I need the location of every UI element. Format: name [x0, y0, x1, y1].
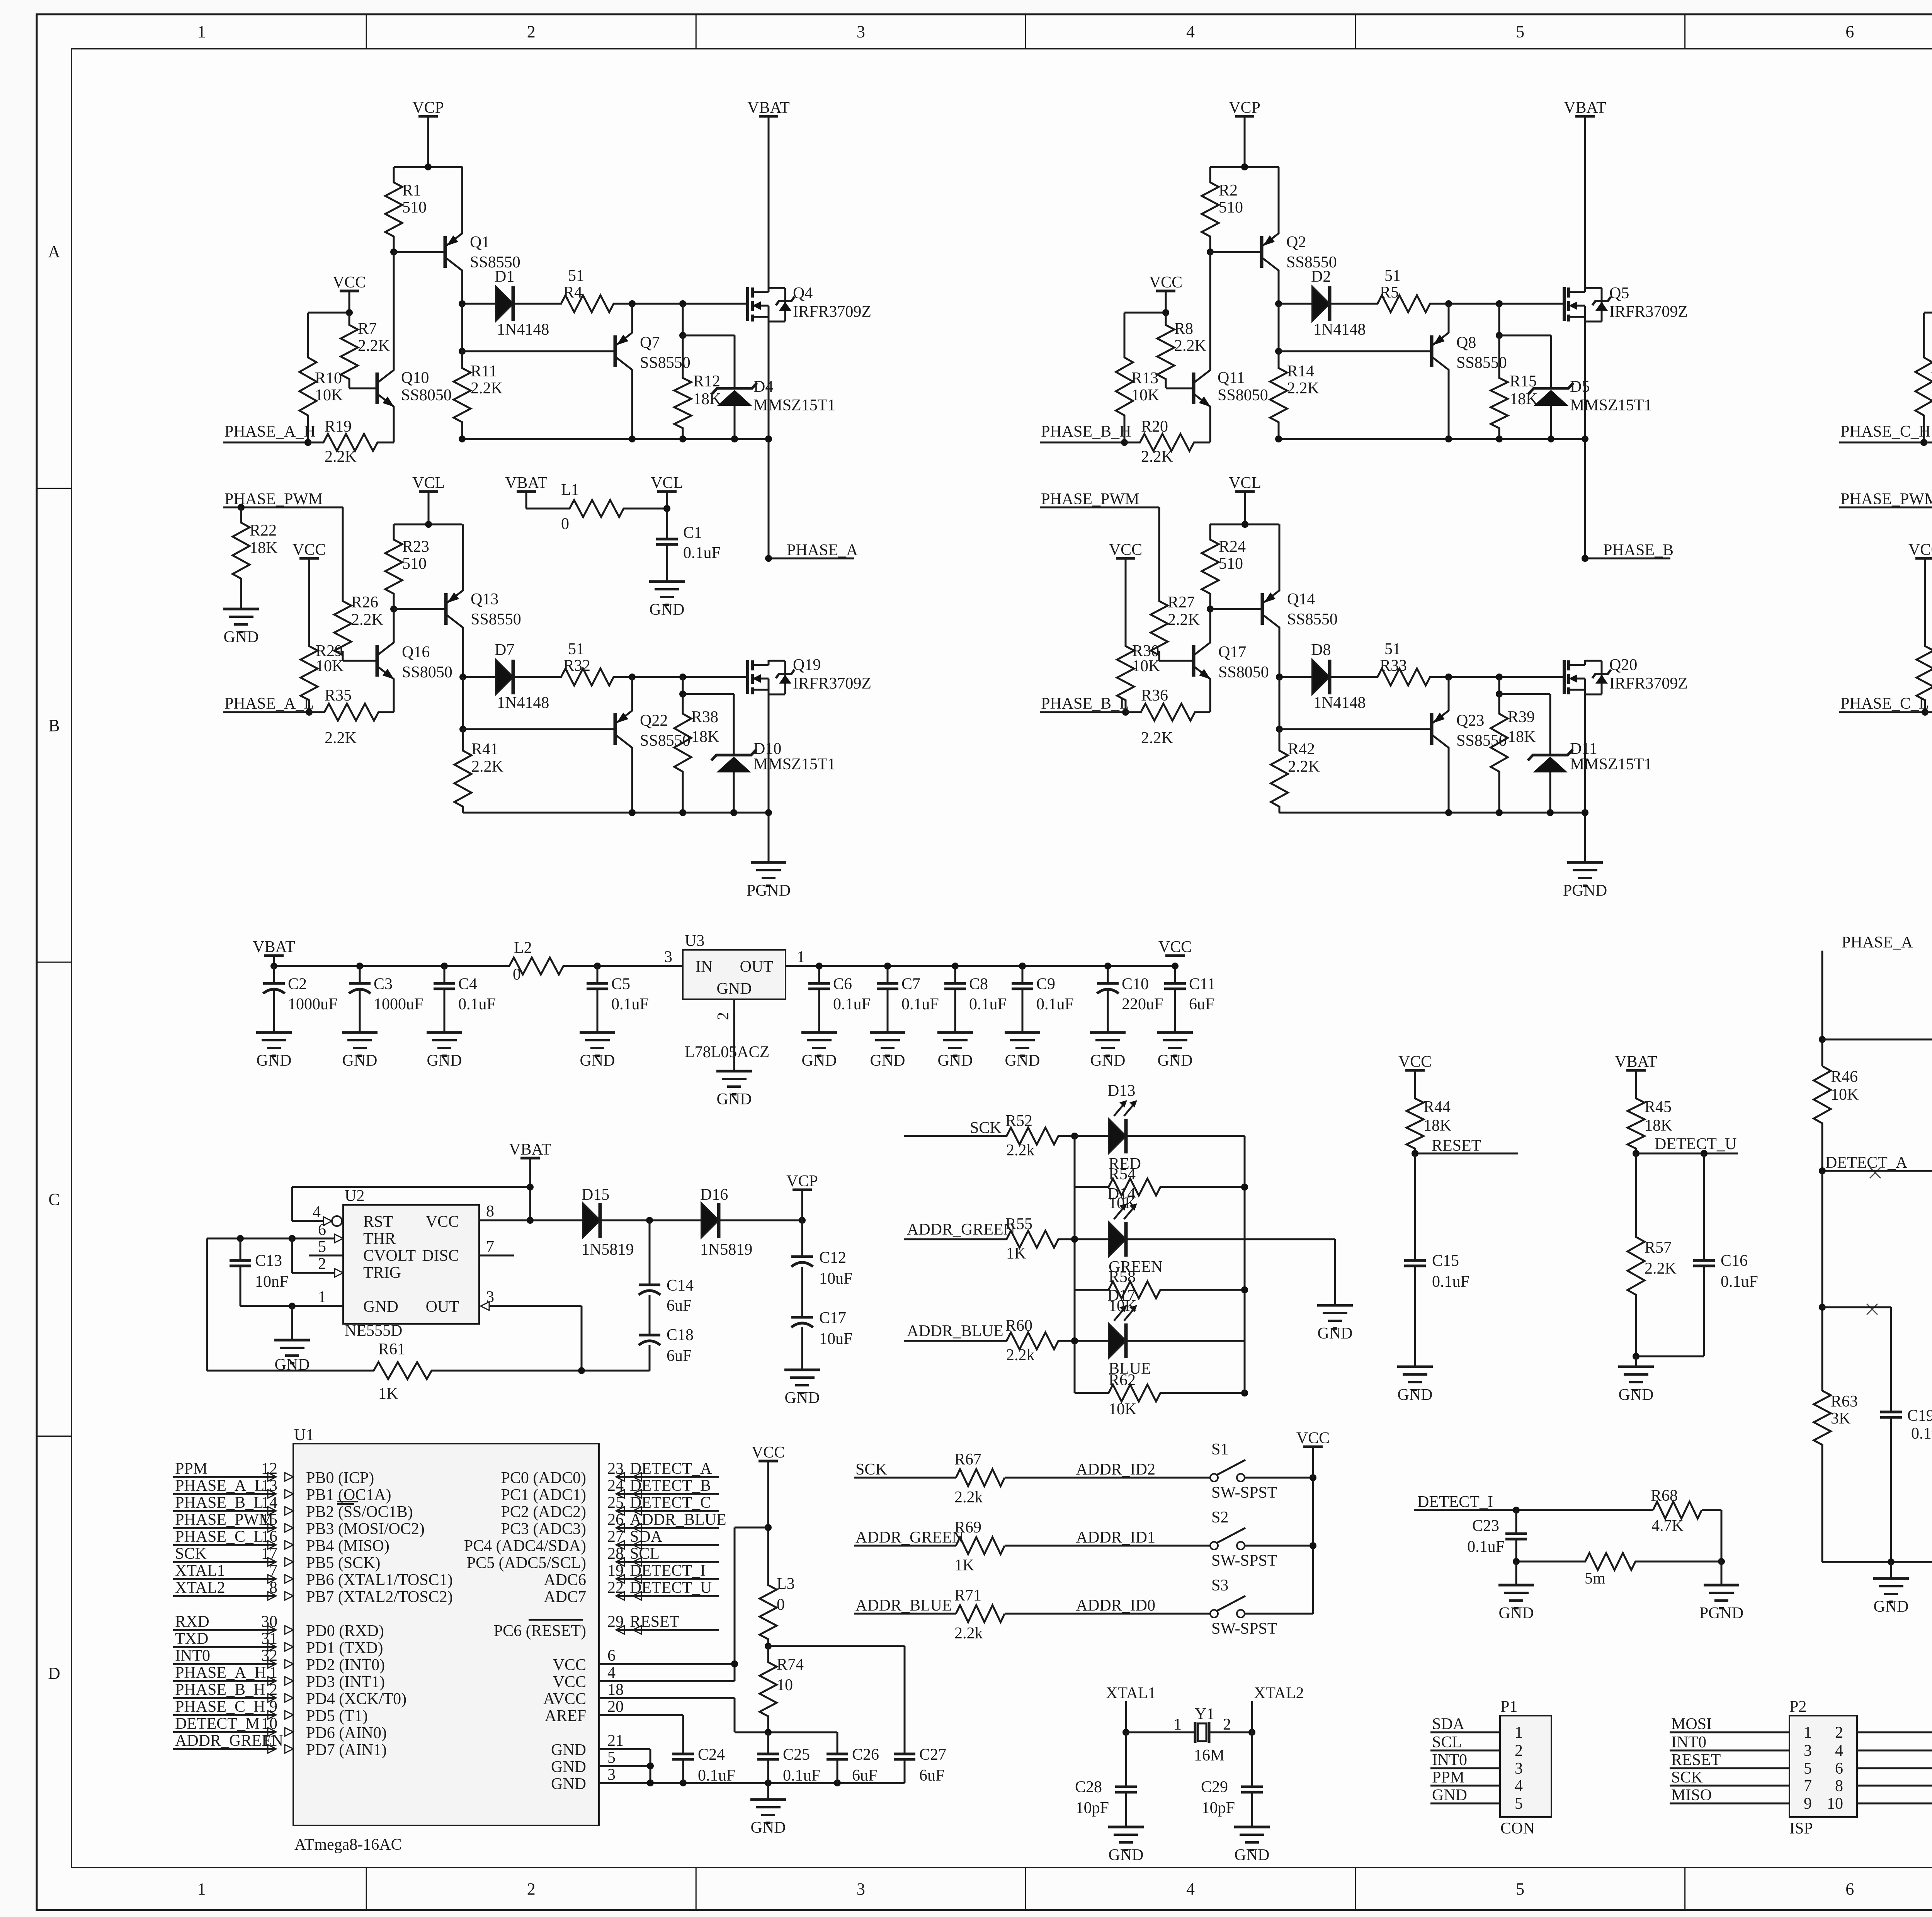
svg-text:PD7 (AIN1): PD7 (AIN1) [306, 1741, 387, 1759]
svg-text:18K: 18K [1510, 390, 1537, 408]
transistor Q14 [1261, 593, 1264, 625]
capacitor C17 [801, 1267, 803, 1317]
svg-text:1N4148: 1N4148 [497, 321, 549, 338]
svg-text:D2: D2 [1311, 268, 1331, 286]
svg-text:6uF: 6uF [667, 1297, 692, 1315]
svg-text:THR: THR [363, 1230, 396, 1248]
svg-text:C29: C29 [1201, 1778, 1228, 1796]
svg-text:PC3 (ADC3): PC3 (ADC3) [501, 1520, 586, 1538]
wire main supply rail [274, 965, 475, 967]
svg-text:2: 2 [1515, 1742, 1523, 1760]
svg-text:VCC: VCC [553, 1656, 586, 1674]
power VCL (phase B) [1235, 490, 1255, 493]
svg-text:2.2K: 2.2K [1174, 337, 1206, 355]
svg-text:RESET: RESET [630, 1613, 679, 1631]
svg-text:SCL: SCL [630, 1545, 660, 1563]
power VCC (phase B low input) [1116, 557, 1135, 560]
resistor R15 [1498, 304, 1500, 335]
power VBAT (supply input) [264, 954, 284, 957]
svg-text:10K: 10K [1109, 1297, 1136, 1315]
svg-text:10K: 10K [1109, 1194, 1136, 1212]
overline PB2 SS [337, 1503, 354, 1505]
svg-text:PB7 (XTAL2/TOSC2): PB7 (XTAL2/TOSC2) [306, 1588, 453, 1606]
svg-text:1: 1 [1515, 1724, 1523, 1742]
wire [1166, 388, 1194, 390]
svg-text:R57: R57 [1645, 1239, 1672, 1257]
svg-text:SS8550: SS8550 [1456, 732, 1507, 750]
resistor R21 [1924, 434, 1932, 451]
svg-text:ADC7: ADC7 [544, 1588, 586, 1606]
svg-text:PGND: PGND [1699, 1604, 1743, 1622]
svg-text:1: 1 [197, 22, 206, 41]
node [1582, 809, 1588, 816]
svg-text:R26: R26 [351, 594, 378, 611]
node [459, 674, 466, 680]
svg-text:XTAL1: XTAL1 [175, 1562, 225, 1580]
svg-text:PD1 (TXD): PD1 (TXD) [306, 1639, 383, 1657]
ground GND (C29) [1234, 1826, 1270, 1829]
led D17 [1075, 1340, 1109, 1342]
svg-text:D8: D8 [1311, 641, 1331, 659]
transistor Q2 [1260, 236, 1264, 268]
svg-text:GND: GND [785, 1389, 820, 1407]
svg-text:R27: R27 [1168, 594, 1195, 611]
svg-text:Q23: Q23 [1456, 712, 1484, 730]
node [1241, 163, 1248, 170]
ground GND (C7) [870, 1031, 905, 1034]
svg-text:ADDR_ID0: ADDR_ID0 [1076, 1597, 1155, 1614]
svg-text:10K: 10K [1132, 657, 1160, 675]
svg-text:VCL: VCL [412, 474, 445, 492]
svg-text:16M: 16M [1194, 1747, 1225, 1764]
svg-text:R19: R19 [325, 418, 352, 435]
svg-text:18: 18 [607, 1681, 624, 1699]
svg-text:VCC: VCC [1158, 938, 1192, 956]
svg-text:C23: C23 [1472, 1517, 1499, 1535]
wire [1040, 711, 1126, 713]
resistor R38 [682, 677, 684, 694]
svg-text:51: 51 [1384, 267, 1401, 285]
svg-text:ADDR_ID2: ADDR_ID2 [1076, 1461, 1155, 1478]
wire [649, 1345, 651, 1371]
svg-text:NE555D: NE555D [345, 1322, 402, 1340]
wire [1636, 1561, 1721, 1563]
svg-text:R71: R71 [954, 1587, 981, 1604]
svg-text:0.1uF: 0.1uF [969, 995, 1007, 1013]
svg-text:Q16: Q16 [402, 643, 430, 661]
svg-text:1K: 1K [378, 1385, 398, 1403]
svg-text:SDA: SDA [630, 1528, 663, 1546]
node [459, 348, 466, 355]
wire [1636, 1153, 1738, 1155]
svg-text:1: 1 [197, 1880, 206, 1898]
node [1633, 1353, 1639, 1360]
resistor R33 [1331, 668, 1449, 685]
svg-text:OUT: OUT [740, 958, 773, 976]
svg-text:3: 3 [1804, 1742, 1812, 1760]
svg-text:6: 6 [1835, 1760, 1843, 1778]
svg-text:2.2K: 2.2K [358, 337, 390, 355]
svg-text:D: D [48, 1664, 60, 1683]
svg-text:C26: C26 [852, 1746, 879, 1764]
svg-text:Q1: Q1 [470, 233, 490, 251]
svg-text:R74: R74 [777, 1656, 804, 1674]
svg-text:SS8550: SS8550 [471, 611, 521, 628]
wire [767, 1783, 769, 1800]
wire [632, 676, 748, 678]
pin 10 P2 [1857, 1803, 1932, 1805]
wire [904, 1135, 989, 1137]
wire [1822, 1306, 1891, 1308]
zener diode D10 [683, 693, 734, 695]
capacitor C23 [1515, 1510, 1517, 1534]
capacitor C28 [1125, 1732, 1127, 1787]
led D13 [1075, 1135, 1109, 1137]
resistor R13 [1116, 313, 1133, 442]
node [1276, 726, 1283, 733]
svg-text:MISO: MISO [1671, 1786, 1712, 1804]
svg-text:PC4 (ADC4/SDA): PC4 (ADC4/SDA) [464, 1537, 586, 1555]
diode D7 [463, 676, 496, 678]
svg-text:10uF: 10uF [819, 1330, 852, 1348]
svg-text:3K: 3K [1831, 1410, 1850, 1427]
svg-text:R44: R44 [1423, 1098, 1451, 1116]
wire col A lower [1821, 1171, 1823, 1391]
wire [801, 1190, 803, 1220]
wire [1584, 322, 1586, 558]
wire [768, 116, 770, 287]
svg-text:C9: C9 [1036, 975, 1055, 993]
svg-text:L1: L1 [561, 481, 579, 499]
svg-text:Q4: Q4 [793, 284, 813, 302]
svg-text:Q10: Q10 [401, 369, 429, 387]
svg-text:ADDR_BLUE: ADDR_BLUE [855, 1597, 952, 1614]
svg-text:MMSZ15T1: MMSZ15T1 [1570, 396, 1652, 414]
svg-text:L78L05ACZ: L78L05ACZ [685, 1043, 769, 1061]
wire [582, 1370, 650, 1372]
svg-text:3: 3 [664, 948, 672, 966]
resistor R23 [385, 524, 402, 609]
node [1122, 709, 1129, 716]
capacitor C6 [818, 966, 820, 983]
resistor R54 [1075, 1179, 1245, 1196]
svg-text:7: 7 [486, 1238, 494, 1256]
svg-text:GND: GND [1398, 1386, 1433, 1404]
wire [1279, 524, 1281, 591]
svg-text:Q8: Q8 [1456, 334, 1476, 352]
wire [1515, 1561, 1517, 1585]
svg-text:C7: C7 [901, 975, 920, 993]
wire [1251, 1701, 1253, 1732]
resistor R16 [1915, 313, 1932, 442]
svg-text:21: 21 [607, 1732, 624, 1750]
svg-text:GND: GND [751, 1819, 786, 1837]
svg-text:R8: R8 [1174, 320, 1193, 338]
svg-text:PHASE_C_H: PHASE_C_H [1840, 423, 1930, 441]
svg-text:SCK: SCK [1671, 1769, 1703, 1786]
svg-text:A: A [48, 242, 60, 261]
ground GND (C1) [649, 580, 685, 583]
node [799, 1217, 806, 1224]
ground GND (C2) [256, 1031, 292, 1034]
svg-text:PPM: PPM [175, 1460, 207, 1478]
resistor R26 [334, 595, 351, 661]
svg-text:510: 510 [1219, 555, 1243, 573]
node [527, 1184, 534, 1191]
wire [1124, 312, 1166, 314]
svg-text:2.2K: 2.2K [1288, 758, 1320, 776]
wire [1005, 1613, 1210, 1615]
svg-text:PHASE_B: PHASE_B [1603, 541, 1673, 559]
mosfet Q20 [1563, 660, 1566, 694]
svg-text:C14: C14 [667, 1277, 694, 1294]
svg-text:IRFR3709Z: IRFR3709Z [1609, 675, 1688, 692]
node [1582, 435, 1588, 442]
svg-text:PHASE_A: PHASE_A [1842, 934, 1913, 951]
svg-text:C4: C4 [458, 975, 477, 993]
wire [427, 116, 429, 167]
svg-text:R20: R20 [1141, 418, 1168, 435]
capacitor C1 [656, 538, 678, 541]
wire [1584, 116, 1586, 287]
capacitor C5 [597, 966, 599, 983]
svg-text:1K: 1K [954, 1556, 974, 1574]
svg-text:C19: C19 [1907, 1407, 1932, 1425]
svg-text:C5: C5 [611, 975, 630, 993]
node [765, 1524, 772, 1531]
svg-text:1K: 1K [1006, 1245, 1026, 1262]
wire [1635, 1356, 1637, 1367]
wire [631, 677, 633, 711]
svg-text:DETECT_U: DETECT_U [1655, 1135, 1736, 1153]
svg-text:DETECT_A: DETECT_A [1825, 1154, 1908, 1172]
svg-text:GND: GND [1318, 1325, 1353, 1342]
svg-text:R63: R63 [1831, 1393, 1858, 1410]
svg-text:PC1 (ADC1): PC1 (ADC1) [501, 1486, 586, 1504]
node [1241, 1286, 1248, 1293]
svg-text:51: 51 [568, 267, 584, 285]
svg-text:RST: RST [363, 1213, 393, 1231]
svg-text:Q2: Q2 [1286, 233, 1306, 251]
wire [1158, 651, 1160, 661]
svg-text:R67: R67 [954, 1451, 981, 1468]
wire [223, 711, 309, 713]
svg-text:MMSZ15T1: MMSZ15T1 [753, 396, 835, 414]
svg-text:C2: C2 [288, 975, 307, 993]
svg-text:6: 6 [318, 1221, 326, 1239]
svg-text:ADDR_GREEN: ADDR_GREEN [907, 1221, 1015, 1238]
wire led right bus [1244, 1136, 1246, 1393]
svg-text:10: 10 [1827, 1795, 1843, 1813]
transistor Q17 [1192, 645, 1196, 677]
transistor Q1 [444, 236, 447, 268]
power VCC (switches) [1303, 1446, 1323, 1448]
power VBAT (detect_u) [1626, 1069, 1646, 1072]
ground GND (C28) [1108, 1826, 1144, 1829]
node [1122, 1729, 1129, 1736]
svg-text:PHASE_PWM: PHASE_PWM [1041, 490, 1139, 508]
svg-text:VCP: VCP [786, 1172, 818, 1190]
wire [720, 1220, 802, 1221]
wire r70 row [1516, 1561, 1585, 1563]
svg-text:VCC: VCC [752, 1444, 785, 1461]
node [1513, 1507, 1520, 1514]
svg-text:4: 4 [1186, 1880, 1195, 1898]
svg-text:0.1uF: 0.1uF [698, 1767, 735, 1784]
resistor R60 [989, 1332, 1075, 1349]
svg-text:IRFR3709Z: IRFR3709Z [793, 303, 871, 321]
svg-text:0.1uF: 0.1uF [1036, 995, 1074, 1013]
svg-text:VBAT: VBAT [509, 1141, 551, 1158]
svg-text:VCP: VCP [1229, 99, 1260, 117]
svg-text:PC5 (ADC5/SCL): PC5 (ADC5/SCL) [467, 1554, 586, 1572]
svg-text:1: 1 [1173, 1716, 1182, 1733]
wire [291, 1306, 293, 1340]
svg-text:XTAL2: XTAL2 [175, 1579, 225, 1597]
resistor R12 [682, 304, 684, 335]
svg-text:R13: R13 [1131, 369, 1158, 387]
resistor R44 [1414, 1070, 1416, 1094]
capacitor C2 [273, 966, 275, 983]
node [1920, 439, 1927, 446]
mcu U1 ATmega8-16AC [293, 1444, 599, 1825]
wire [461, 304, 463, 351]
svg-text:D13: D13 [1107, 1082, 1135, 1100]
wire [1210, 608, 1261, 610]
svg-text:GND: GND [1432, 1786, 1467, 1804]
svg-text:C16: C16 [1721, 1252, 1748, 1270]
net label PHASE_B [1585, 558, 1670, 560]
svg-text:C10: C10 [1122, 975, 1149, 993]
switch S3 [1210, 1610, 1218, 1618]
svg-text:10pF: 10pF [1202, 1799, 1235, 1817]
node [578, 1367, 585, 1374]
wire [1165, 291, 1167, 313]
resistor R52 [989, 1128, 1075, 1145]
wire [1245, 1613, 1313, 1615]
diode D8 [1279, 676, 1312, 678]
wire [461, 167, 463, 234]
svg-text:PHASE_A_L: PHASE_A_L [175, 1477, 264, 1495]
svg-text:SCK: SCK [175, 1545, 207, 1563]
svg-text:VCC: VCC [426, 1213, 459, 1231]
node [765, 435, 772, 442]
svg-text:R55: R55 [1005, 1215, 1032, 1233]
wire [1040, 507, 1159, 509]
wire [223, 507, 343, 509]
wire gnd pins [599, 1748, 650, 1750]
svg-text:PHASE_B_H: PHASE_B_H [1041, 423, 1131, 441]
resistor R11 [454, 351, 471, 439]
resistor R70 [1585, 1553, 1636, 1570]
wire [291, 1187, 293, 1221]
svg-text:D15: D15 [582, 1186, 609, 1204]
svg-text:Q13: Q13 [471, 590, 498, 608]
wire [1128, 1340, 1245, 1342]
svg-text:PD2 (INT0): PD2 (INT0) [306, 1656, 385, 1674]
svg-text:PC6 (RESET): PC6 (RESET) [494, 1622, 586, 1640]
svg-text:PHASE_A: PHASE_A [787, 541, 858, 559]
svg-text:DETECT_U: DETECT_U [630, 1579, 712, 1597]
svg-text:0.1uF: 0.1uF [1432, 1273, 1469, 1291]
svg-text:VCC: VCC [1908, 541, 1932, 559]
svg-text:GND: GND [870, 1052, 905, 1070]
svg-text:PHASE_PWM: PHASE_PWM [1840, 490, 1932, 508]
wire [1839, 442, 1924, 444]
svg-text:10K: 10K [1831, 1086, 1859, 1104]
inductor L2 [475, 958, 597, 975]
wire [1448, 747, 1450, 813]
svg-text:PC0 (ADC0): PC0 (ADC0) [501, 1469, 586, 1487]
svg-text:VCC: VCC [1296, 1429, 1330, 1447]
svg-text:Q7: Q7 [640, 334, 660, 352]
wire [1128, 1135, 1245, 1137]
svg-text:R39: R39 [1508, 708, 1535, 726]
wire [632, 303, 749, 305]
svg-text:10nF: 10nF [255, 1273, 288, 1291]
node [1633, 1150, 1639, 1157]
svg-text:C12: C12 [819, 1249, 846, 1267]
svg-text:R69: R69 [954, 1519, 981, 1536]
svg-text:18K: 18K [693, 390, 721, 408]
pin 5 P1 [1430, 1803, 1500, 1805]
svg-text:6: 6 [1845, 22, 1854, 41]
wire [1448, 369, 1450, 439]
resistor R19 [308, 434, 394, 451]
svg-text:VCC: VCC [553, 1673, 586, 1691]
svg-text:C24: C24 [698, 1746, 725, 1764]
transistor Q8 [1430, 335, 1434, 367]
resistor R46 [1814, 1066, 1831, 1171]
ground GND (led) [1317, 1304, 1353, 1307]
svg-text:R14: R14 [1287, 362, 1314, 380]
wire [393, 679, 395, 712]
wire [1125, 1701, 1127, 1732]
svg-text:9: 9 [1804, 1795, 1812, 1813]
wire [666, 544, 668, 582]
mosfet Q4 [746, 287, 749, 321]
svg-text:XTAL2: XTAL2 [1254, 1684, 1304, 1702]
svg-text:VCC: VCC [1109, 541, 1142, 559]
resistor R41 [454, 729, 471, 813]
svg-text:C17: C17 [819, 1309, 846, 1327]
resistor R45 [1635, 1070, 1637, 1094]
svg-text:R68: R68 [1651, 1487, 1678, 1505]
ground GND (C4) [427, 1031, 462, 1034]
node [1445, 300, 1452, 307]
svg-text:R1: R1 [402, 182, 421, 199]
node [1922, 709, 1929, 716]
node [679, 300, 686, 307]
wire [768, 695, 770, 862]
pin 7 P2 [1670, 1785, 1789, 1787]
svg-text:PC2 (ADC2): PC2 (ADC2) [501, 1503, 586, 1521]
svg-text:ADDR_BLUE: ADDR_BLUE [630, 1511, 726, 1529]
pin 2 TRIG [335, 1269, 343, 1277]
ground GND (C9) [1005, 1031, 1040, 1034]
svg-text:GND: GND [257, 1052, 292, 1070]
svg-text:B: B [48, 716, 60, 735]
svg-text:ADDR_BLUE: ADDR_BLUE [907, 1322, 1003, 1340]
wire [1279, 812, 1585, 814]
resistor R68 [1653, 1502, 1702, 1519]
ground GND (C15) [1397, 1366, 1433, 1368]
resistor R63 [1814, 1391, 1831, 1562]
svg-text:INT0: INT0 [1432, 1751, 1467, 1769]
wire [1279, 438, 1585, 440]
wire [342, 651, 344, 661]
svg-text:PGND: PGND [1563, 882, 1607, 900]
